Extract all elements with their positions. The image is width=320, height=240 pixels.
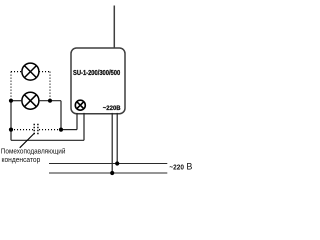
wire dotted left rail	[10, 72, 12, 100]
wire lamp row left	[11, 100, 22, 102]
mains line upper	[49, 163, 167, 165]
lamp L1 bottom	[22, 92, 39, 109]
node capacitor-left	[9, 128, 13, 132]
node mains-upper	[115, 161, 119, 165]
node capacitor-right	[59, 128, 63, 132]
mains line lower	[49, 172, 167, 174]
wire box to mains upper	[116, 113, 118, 164]
lamp L2 (optional, dotted wiring) top	[22, 63, 39, 80]
wire box stub left1	[76, 113, 78, 130]
indicator lamp in box	[75, 100, 85, 110]
solid wires	[11, 101, 117, 173]
device box SU-1	[71, 48, 125, 114]
node lamp-left	[9, 99, 13, 103]
svg-text:~220: ~220	[169, 162, 184, 171]
wire node to box (horizontal y129.6)	[61, 129, 77, 131]
svg-text:В: В	[186, 162, 192, 172]
wire left rail down	[10, 101, 12, 141]
wire dotted capacitor right	[39, 129, 60, 131]
wire dotted right rail	[49, 72, 51, 100]
dotted wires to optional lamp	[11, 72, 60, 130]
antenna wire	[113, 6, 115, 49]
wire lamp row right	[39, 100, 61, 102]
wire bottom return	[11, 139, 84, 141]
wire dotted capacitor left	[11, 129, 33, 131]
svg-text:конденсатор: конденсатор	[2, 155, 41, 164]
svg-text:~220В: ~220В	[103, 105, 121, 112]
pointer line to capacitor	[20, 133, 35, 148]
wire node to box (vertical x61)	[60, 101, 62, 130]
node lamp-right	[48, 99, 52, 103]
wire dotted top-right	[39, 71, 50, 73]
node mains-lower	[110, 171, 114, 175]
junction dots	[9, 99, 119, 175]
wire box to mains lower	[111, 113, 113, 173]
wire dotted top-left	[11, 71, 22, 73]
svg-text:SU-1-200/300/500: SU-1-200/300/500	[73, 68, 120, 77]
capacitor C1 (suppression, dashed plates)	[34, 124, 38, 136]
wire box stub left2	[83, 113, 85, 140]
